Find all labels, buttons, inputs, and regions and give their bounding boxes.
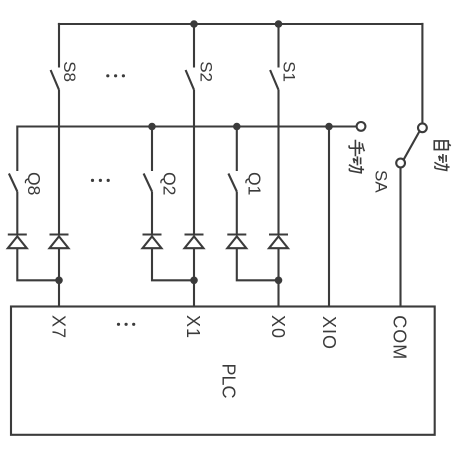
terminal: manual contact (open circle) bbox=[357, 122, 366, 131]
junction: second bus / Q1 bbox=[233, 123, 241, 131]
diode (S2 branch) bbox=[185, 235, 204, 249]
svg-text:S1: S1 bbox=[280, 61, 299, 82]
wire: Q2 diode to node X1 (corner) bbox=[152, 248, 194, 280]
wire: SA common to PLC COM bbox=[399, 167, 401, 307]
junction: node X7 bbox=[55, 277, 63, 285]
switch Q8 bbox=[9, 174, 17, 192]
junction: top bus / S1 bbox=[275, 20, 283, 28]
wire: Q8 diode to node X7 (corner) bbox=[17, 248, 59, 280]
switch S8 bbox=[51, 70, 59, 90]
PLC box bbox=[11, 307, 435, 435]
wire: SA auto drop from top bus bbox=[421, 23, 423, 124]
diode (Q2 branch) bbox=[143, 235, 162, 249]
wire: S1 upper drop bbox=[277, 24, 279, 68]
diode (Q1 branch) bbox=[227, 235, 246, 249]
svg-text:XIO: XIO bbox=[319, 316, 339, 350]
svg-text:S8: S8 bbox=[60, 61, 79, 82]
wire: S2 lower drop to diode bbox=[193, 90, 195, 234]
diode (S8 branch) bbox=[50, 235, 69, 249]
ellipsis between X7 and X1 bbox=[117, 323, 135, 326]
wire: Q1 lower drop to diode bbox=[236, 192, 238, 234]
wire: Q1 drop from second bus bbox=[236, 127, 238, 172]
wire: Q2 lower drop to diode bbox=[151, 192, 153, 234]
wire: S1 lower drop to diode bbox=[277, 90, 279, 234]
wire: node X0 to PLC input bbox=[277, 280, 279, 307]
wire: S2 upper drop bbox=[193, 24, 195, 68]
wire: XIO drop to PLC bbox=[328, 127, 330, 308]
ellipsis between S8 and S2 bbox=[106, 74, 125, 77]
diode (S1 branch) bbox=[269, 235, 288, 249]
wire: S2 diode to node X1 bbox=[193, 248, 195, 280]
switch S2 bbox=[186, 70, 194, 90]
wire: Q8 lower drop to diode bbox=[16, 192, 18, 234]
svg-text:Q8: Q8 bbox=[24, 172, 44, 195]
svg-text:Q1: Q1 bbox=[244, 172, 264, 195]
wire: top bus (horizontal feeder) bbox=[58, 23, 424, 25]
svg-text:Q2: Q2 bbox=[160, 172, 180, 195]
switch Q2 bbox=[144, 174, 152, 192]
switch SA (blade) bbox=[404, 132, 420, 160]
wire: Q2 drop from second bus bbox=[151, 127, 153, 172]
junction: second bus / XIO bbox=[325, 123, 333, 131]
junction: node X1 bbox=[190, 277, 198, 285]
svg-text:COM: COM bbox=[389, 315, 409, 360]
svg-text:X0: X0 bbox=[268, 315, 288, 339]
terminal: SA common contact (open circle) bbox=[396, 159, 405, 168]
diode (Q8 branch) bbox=[8, 235, 27, 249]
terminal: SA auto contact (open circle) bbox=[418, 123, 427, 132]
svg-text:X1: X1 bbox=[183, 315, 203, 339]
ellipsis between Q8 and Q2 bbox=[91, 179, 110, 182]
wire: S8 upper drop from top bus bbox=[58, 23, 60, 68]
svg-text:SA: SA bbox=[372, 170, 391, 193]
wire: Q8 drop from second bus bbox=[16, 126, 18, 172]
switch Q1 bbox=[228, 174, 236, 192]
svg-text:PLC: PLC bbox=[218, 364, 238, 399]
switch S1 bbox=[270, 70, 278, 90]
label 自动 bbox=[434, 141, 451, 170]
junction: node X0 bbox=[275, 277, 283, 285]
wire: node X7 to PLC input bbox=[58, 280, 60, 307]
junction: top bus / S2 bbox=[190, 20, 198, 28]
wire: second bus (manual feeder) bbox=[17, 125, 356, 127]
svg-text:S2: S2 bbox=[197, 61, 216, 82]
label 手动 bbox=[349, 140, 364, 173]
wire: S8 lower drop to diode bbox=[58, 90, 60, 234]
svg-text:X7: X7 bbox=[48, 315, 68, 339]
junction: second bus / Q2 bbox=[148, 123, 156, 131]
wire: Q1 diode to node X0 (corner) bbox=[237, 248, 279, 280]
wire: S8 diode to node X7 bbox=[58, 248, 60, 280]
wire: node X1 to PLC input bbox=[193, 280, 195, 307]
wire: S1 diode to node X0 bbox=[277, 248, 279, 280]
